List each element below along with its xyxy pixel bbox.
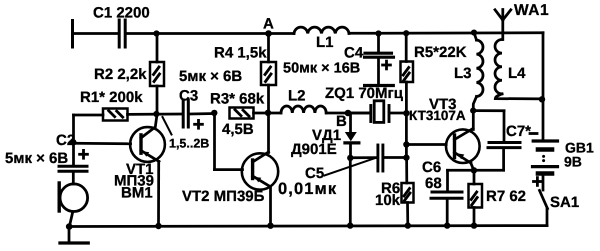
wire VT2 collector up [267, 113, 270, 153]
junction VT2 emitter-bottom rail [267, 223, 273, 229]
junction L4-right column [539, 96, 545, 102]
svg-text:L1: L1 [316, 34, 334, 51]
svg-text:R5*22K: R5*22K [414, 44, 467, 61]
capacitor C1 [119, 20, 125, 47]
wire VT2 emitter to bottom rail [269, 187, 272, 226]
capacitor C2 [59, 166, 87, 184]
resistor R2 [150, 34, 164, 115]
capacitor C3 [183, 100, 188, 127]
wire VT2 base drop [215, 113, 243, 170]
svg-text:ВМ1: ВМ1 [121, 185, 153, 202]
leader line of 1,5..2V annotation [163, 117, 172, 135]
node A junction [265, 30, 272, 37]
junction ZQ1-R5 [403, 110, 409, 116]
crystal ZQ1 [371, 101, 389, 123]
svg-text:WA1: WA1 [514, 2, 549, 19]
svg-text:C7*: C7* [506, 123, 531, 140]
svg-text:КТ3107А: КТ3107А [409, 108, 466, 123]
svg-text:R3* 68k: R3* 68k [210, 91, 265, 108]
junction VD1-C5-ground wire [347, 155, 353, 161]
svg-text:0,01мк: 0,01мк [278, 180, 337, 198]
ground [60, 227, 88, 243]
wire R3 to VT2 collector node [254, 112, 268, 115]
svg-text:50мк × 16В: 50мк × 16В [283, 61, 360, 77]
resistor R3 [230, 108, 254, 119]
wire C5 to base node [384, 156, 406, 159]
battery GB1 [530, 134, 558, 186]
microphone BM1 [59, 183, 87, 212]
wire C7 bottom to emitter junction [448, 149, 504, 170]
junction VT1 emitter-bottom rail [155, 223, 161, 229]
node B junction [345, 110, 352, 117]
inductor L4 [495, 40, 502, 94]
capacitor C6 [431, 170, 462, 225]
svg-text:Д901Е: Д901Е [291, 141, 337, 158]
wire VT1 emitter to bottom rail [157, 162, 160, 227]
wire L2 to ZQ1 through node B [326, 112, 369, 115]
junction VT3 base tap [403, 141, 409, 147]
svg-text:5мк × 6В: 5мк × 6В [179, 68, 242, 85]
junction R6-bottom rail [405, 222, 411, 228]
resistor R4 [261, 34, 276, 114]
resistor R6 [402, 158, 414, 226]
wire VT1 base [74, 142, 131, 145]
wire ZQ1 to R5 bottom node [390, 112, 406, 115]
junction C1-R2 [153, 30, 159, 36]
svg-text:VT2 МП39Б: VT2 МП39Б [182, 188, 265, 205]
polarity plus of C3 [195, 120, 203, 128]
junction BM1-bottom rail [66, 223, 73, 230]
svg-text:68: 68 [425, 175, 442, 192]
wire C3 to R3 [190, 112, 215, 115]
capacitor C5 [378, 145, 383, 171]
junction C5-R6 [403, 154, 409, 160]
junction VD1 wire-bottom rail [347, 222, 353, 228]
resistor R1 [103, 109, 128, 121]
inductor L1 [294, 27, 349, 33]
wire top rail: terminal to C1 [73, 32, 118, 35]
junction C6-bottom rail [444, 222, 450, 228]
wire L3 bottom to VT3 collector [473, 97, 476, 130]
svg-text:R1* 200k: R1* 200k [80, 89, 143, 106]
svg-text:L3: L3 [454, 65, 472, 82]
svg-text:1,5..2В: 1,5..2В [169, 137, 209, 151]
resistor R5 [401, 33, 414, 82]
wire R5 bottom through base node to C5 node [405, 82, 408, 158]
junction C4 top [375, 30, 381, 36]
wire L4 bottom to right column [495, 94, 540, 99]
transistor VT2 [242, 152, 278, 190]
capacitor C7 [488, 143, 520, 148]
wire battery to switch [542, 176, 545, 191]
svg-text:SA1: SA1 [550, 194, 579, 211]
wire VT3 base [406, 143, 446, 146]
svg-text:5мк × 6В: 5мк × 6В [5, 150, 68, 167]
svg-text:R7 62: R7 62 [486, 188, 526, 205]
wire BM1 to bottom rail [70, 212, 73, 226]
input terminal bar (left end of top rail) [71, 21, 74, 48]
wire VT3 emitter to junction [471, 163, 474, 170]
diode VD1 (varicap) [345, 113, 359, 158]
leader line of C5 label [325, 158, 377, 176]
wire collector branch to C7 [473, 111, 504, 141]
svg-text:L4: L4 [508, 65, 526, 82]
chassis bar at C4 bottom [365, 84, 394, 87]
svg-text:C6: C6 [422, 159, 441, 176]
junction VT3 emitter-R7-C7 [471, 167, 477, 173]
svg-text:4,5В: 4,5В [222, 121, 254, 138]
junction R5 top [403, 30, 409, 36]
antenna WA1 [495, 10, 511, 40]
svg-text:9В: 9В [564, 154, 582, 170]
svg-text:10k: 10k [375, 192, 401, 209]
wire VD1 junction to C5 [350, 156, 376, 159]
wire R1 to C3 [128, 113, 182, 116]
wire right column: rail corner down to battery [542, 33, 545, 141]
svg-text:C1 2200: C1 2200 [93, 5, 150, 22]
wire top rail: L1 to right corner [349, 31, 543, 34]
svg-text:L2: L2 [288, 88, 306, 105]
svg-text:C4: C4 [344, 45, 364, 62]
junction C3-R3-VT2 base [211, 110, 217, 116]
wire collector node to L2 [268, 112, 281, 115]
transistor VT1 [130, 115, 165, 162]
resistor R7 [469, 170, 483, 225]
switch SA1 [540, 191, 548, 226]
wire bottom rail [69, 224, 547, 228]
svg-text:R4 1,5k: R4 1,5k [214, 45, 267, 62]
capacitor C4 [365, 34, 394, 85]
junction VT3 collector-C7 branch [470, 108, 476, 114]
wire left column down to C2 [72, 115, 75, 165]
junction C2-R1-VT1 base [70, 139, 76, 145]
inductor L3 [474, 33, 483, 97]
polarity plus of C2 [80, 150, 88, 158]
wire top rail: C1 to L1 [127, 32, 295, 35]
svg-text:ZQ1 70Мгц: ZQ1 70Мгц [325, 85, 404, 102]
junction R7-bottom rail [471, 222, 477, 228]
svg-text:C3: C3 [179, 88, 198, 105]
junction R1-R2-VT1 collector [153, 111, 159, 117]
transistor VT3 [446, 129, 480, 164]
junction L3 top [471, 29, 477, 35]
junction R3-R4-VT2 collector [265, 110, 271, 116]
svg-text:C2: C2 [56, 132, 75, 149]
svg-text:R2 2,2k: R2 2,2k [94, 66, 147, 83]
polarity plus of C4 [383, 61, 391, 69]
svg-text:A: A [263, 16, 274, 33]
wire R1 left lead to left column corner [74, 114, 104, 117]
inductor L2 [281, 106, 326, 113]
wire node B to ZQ1 [348, 112, 369, 115]
wire VD1 cathode down to bottom rail [349, 158, 352, 226]
